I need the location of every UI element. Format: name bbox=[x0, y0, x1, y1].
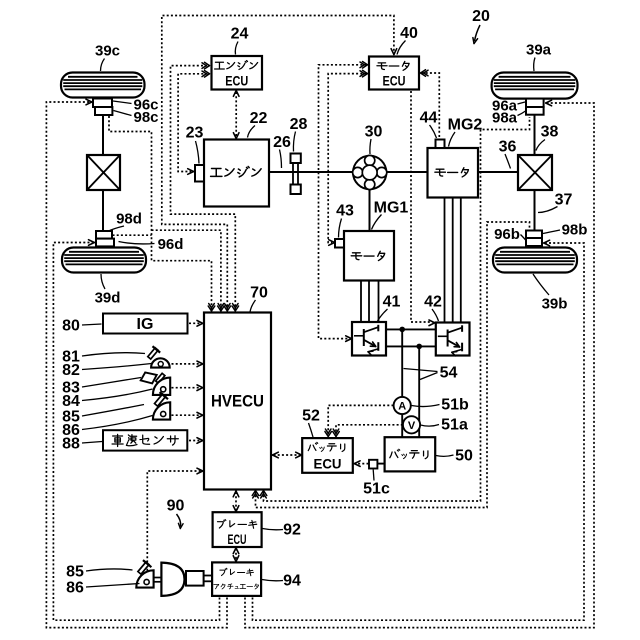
wire: brake ECU to brake actuator bbox=[235, 549, 237, 561]
svg-text:52: 52 bbox=[302, 408, 320, 425]
wheel speed sensor 98a bbox=[526, 107, 544, 115]
label 39d bbox=[95, 274, 121, 306]
label 81 bbox=[62, 349, 145, 366]
shaft right bottom bbox=[534, 189, 536, 232]
wire: HVECU to brake ECU bbox=[235, 492, 237, 511]
label 86 bbox=[62, 416, 152, 440]
svg-text:80: 80 bbox=[62, 318, 80, 335]
svg-text:44: 44 bbox=[420, 110, 438, 127]
rotation sensor 44 bbox=[436, 140, 445, 149]
svg-text:28: 28 bbox=[290, 116, 308, 133]
wire: brake line to wheel brake 96c bbox=[46, 102, 227, 628]
label 98d bbox=[108, 210, 142, 231]
svg-text:90: 90 bbox=[167, 498, 185, 515]
shaft right top bbox=[534, 114, 536, 156]
label 85 bbox=[62, 405, 144, 426]
label 90 bbox=[167, 498, 185, 515]
svg-text:42: 42 bbox=[424, 294, 442, 311]
wheel brake 96d bbox=[96, 239, 114, 247]
accel pedal sensor 81 82 bbox=[145, 346, 169, 368]
label 80 bbox=[62, 318, 101, 335]
wheel brake 96c bbox=[93, 99, 112, 108]
label 40 bbox=[397, 25, 418, 54]
svg-text:96b: 96b bbox=[494, 226, 520, 243]
wire: brake line to wheel brake 96d bbox=[53, 243, 219, 621]
inverter 42 bbox=[436, 323, 470, 356]
wire: brake line to wheel brake 96a bbox=[245, 103, 594, 628]
label 92 bbox=[263, 522, 302, 539]
wire: HVECU to battery ECU bbox=[274, 454, 301, 456]
svg-text:22: 22 bbox=[250, 110, 268, 127]
motor MG1 bbox=[344, 231, 394, 281]
throttle sensor 23 bbox=[195, 165, 204, 182]
label 51b bbox=[412, 397, 470, 414]
svg-text:36: 36 bbox=[499, 139, 517, 156]
wheel 39c bbox=[61, 73, 145, 98]
svg-text:23: 23 bbox=[186, 125, 204, 142]
wire: voltmeter 51a to battery ECU bbox=[336, 425, 403, 435]
label 28 bbox=[290, 116, 308, 151]
svg-text:86: 86 bbox=[66, 580, 84, 597]
shaft left bottom bbox=[102, 189, 104, 232]
label 38 bbox=[536, 124, 559, 151]
svg-text:50: 50 bbox=[455, 448, 473, 465]
svg-text:51a: 51a bbox=[441, 417, 468, 434]
planetary gear 30 bbox=[353, 156, 386, 189]
svg-text:40: 40 bbox=[400, 25, 418, 42]
label 44 bbox=[420, 110, 438, 138]
engine ECU 24 bbox=[212, 56, 263, 90]
shaft ring gear to MG2 bbox=[386, 171, 428, 173]
wire: IG switch to HVECU bbox=[189, 322, 201, 324]
damper 28 bbox=[292, 160, 294, 186]
label 42 bbox=[424, 294, 442, 321]
svg-text:ECU: ECU bbox=[314, 456, 342, 472]
label 98b bbox=[543, 221, 587, 238]
wheel speed sensor 98c bbox=[95, 107, 112, 115]
label 39c bbox=[95, 42, 120, 71]
wheel 39b bbox=[493, 248, 577, 273]
svg-text:98b: 98b bbox=[562, 221, 588, 238]
svg-text:98a: 98a bbox=[492, 109, 518, 126]
battery to 51c wire bbox=[377, 463, 386, 465]
svg-text:ECU: ECU bbox=[228, 531, 247, 547]
label 82 bbox=[62, 362, 151, 379]
label 36 bbox=[499, 139, 517, 169]
label 86 lower bbox=[66, 580, 139, 597]
shaft ring to MG1 bbox=[369, 190, 371, 232]
wire: wheel speed sensor 98d branch bbox=[113, 234, 152, 236]
wire: motor ECU to inverter 41 bbox=[319, 65, 367, 339]
wire: ammeter 51b to battery ECU bbox=[328, 405, 393, 434]
wire: motor ECU to sensor 43 bbox=[328, 74, 366, 243]
shaft MG2 to right diff 36 bbox=[478, 171, 518, 173]
svg-text:ECU: ECU bbox=[383, 73, 406, 89]
master cylinder block bbox=[186, 571, 204, 586]
label 54 bbox=[440, 365, 458, 382]
wire: accel sensor to HVECU bbox=[172, 363, 201, 365]
label 51a bbox=[421, 417, 468, 434]
DC bus wires 54 bbox=[386, 328, 437, 330]
motor MG2 bbox=[428, 148, 479, 198]
wire: HVECU to wheel speed sensor 98a bbox=[264, 117, 530, 501]
svg-text:24: 24 bbox=[231, 26, 249, 43]
motor ECU 40 bbox=[369, 57, 419, 90]
label 26 bbox=[273, 134, 291, 168]
svg-text:39d: 39d bbox=[95, 289, 121, 306]
shaft left top bbox=[102, 114, 104, 156]
svg-text:85: 85 bbox=[66, 564, 84, 581]
label 70 bbox=[250, 285, 268, 312]
svg-text:92: 92 bbox=[283, 522, 301, 539]
three phase wires MG1 to inverter 41 bbox=[360, 280, 362, 323]
brake ECU 92 bbox=[213, 512, 262, 547]
svg-text:98d: 98d bbox=[116, 210, 142, 227]
label 51c bbox=[363, 470, 390, 498]
svg-text:51c: 51c bbox=[363, 481, 390, 498]
battery current sensor 51c bbox=[369, 460, 377, 469]
label 85 lower bbox=[66, 564, 132, 581]
wheel brake 96a bbox=[526, 99, 544, 107]
svg-text:51b: 51b bbox=[441, 397, 469, 414]
label 22 bbox=[248, 110, 268, 137]
label 96a bbox=[492, 97, 525, 114]
svg-text:ECU: ECU bbox=[225, 73, 248, 89]
wheel 39a bbox=[492, 73, 578, 99]
label 37 bbox=[538, 192, 573, 213]
wire: brake sensor to HVECU bbox=[172, 387, 201, 389]
wire: HVECU to motor ECU via top bus bbox=[162, 16, 394, 311]
svg-text:39c: 39c bbox=[95, 42, 120, 59]
svg-text:V: V bbox=[408, 420, 416, 432]
label 41 bbox=[378, 294, 401, 321]
svg-text:30: 30 bbox=[365, 124, 383, 141]
label 96c bbox=[113, 96, 159, 113]
brake pedal sensor 83 84 bbox=[141, 372, 171, 395]
svg-text:98c: 98c bbox=[133, 109, 158, 126]
svg-text:20: 20 bbox=[472, 8, 490, 25]
label 52 bbox=[302, 408, 320, 437]
label 20 bbox=[472, 8, 490, 25]
wheel brake 96b bbox=[526, 238, 542, 246]
label 96b bbox=[494, 226, 526, 243]
booster push rod bbox=[185, 575, 187, 577]
rotation sensor 43 bbox=[335, 239, 344, 248]
differential left bbox=[87, 155, 120, 190]
label 98c bbox=[114, 109, 159, 126]
svg-text:54: 54 bbox=[440, 365, 458, 382]
differential right 38 bbox=[518, 155, 552, 190]
wire: sensor 51c to battery ECU bbox=[356, 463, 369, 465]
wire: engine ECU to sensor 23 bbox=[178, 74, 207, 172]
svg-text:HVECU: HVECU bbox=[211, 392, 264, 411]
wire: motor ECU to sensor 44 bbox=[422, 73, 440, 138]
svg-text:MG2: MG2 bbox=[448, 117, 483, 134]
label 94 bbox=[262, 573, 301, 590]
svg-text:39a: 39a bbox=[526, 41, 552, 58]
wire: HVECU to wheel speed sensor 98b bbox=[256, 222, 530, 508]
inverter 41 bbox=[352, 322, 386, 356]
brake actuator 94 bbox=[212, 562, 261, 596]
label 39a bbox=[526, 41, 552, 71]
svg-text:41: 41 bbox=[383, 294, 401, 311]
label MG1 bbox=[372, 200, 409, 230]
wire: sensor branch to HVECU bbox=[152, 230, 221, 310]
svg-text:A: A bbox=[398, 401, 406, 413]
svg-text:38: 38 bbox=[541, 124, 559, 141]
wire: speed sensor to HVECU bbox=[189, 440, 201, 442]
pedal link bbox=[154, 577, 162, 579]
shift sensor 85 86 bbox=[152, 392, 170, 420]
wire: shift sensor to HVECU bbox=[172, 414, 201, 416]
label 39b bbox=[533, 274, 567, 312]
label 84 bbox=[62, 389, 152, 410]
brake pedal 85 86 lower bbox=[135, 560, 153, 588]
wheel 39d bbox=[62, 248, 146, 273]
label MG2 bbox=[448, 117, 483, 147]
svg-text:70: 70 bbox=[250, 285, 268, 302]
wire: wheel speed sensor 98c to HVECU bbox=[109, 116, 212, 311]
IG switch 80 bbox=[103, 314, 188, 334]
wheel speed sensor 98b bbox=[526, 231, 542, 239]
label 24 bbox=[231, 26, 249, 55]
svg-text:MG1: MG1 bbox=[374, 200, 409, 217]
battery 50 bbox=[385, 437, 436, 471]
wire: brake line to wheel brake 96b bbox=[253, 243, 585, 620]
junction dots bbox=[399, 327, 405, 333]
ammeter 51b bbox=[394, 397, 411, 414]
svg-text:82: 82 bbox=[62, 362, 80, 379]
label 23 bbox=[186, 125, 204, 164]
label 50 bbox=[436, 448, 473, 465]
svg-text:96d: 96d bbox=[158, 236, 184, 253]
label 88 bbox=[62, 436, 102, 453]
label 96d bbox=[119, 236, 184, 253]
label 83 bbox=[62, 378, 141, 397]
brake booster dome bbox=[161, 563, 184, 596]
wheel speed sensor 98d bbox=[96, 231, 112, 239]
battery ECU 52 bbox=[302, 438, 353, 473]
wire: motor ECU to inverter 42 bbox=[411, 91, 433, 322]
svg-text:IG: IG bbox=[137, 316, 154, 333]
svg-text:84: 84 bbox=[62, 393, 80, 410]
three phase wires MG2 to inverter 42 bbox=[444, 197, 446, 324]
svg-text:94: 94 bbox=[283, 573, 301, 590]
wire: engine ECU to engine bbox=[235, 92, 237, 137]
label 98a bbox=[492, 109, 526, 126]
label 30 bbox=[365, 124, 383, 154]
wire: brake pedal sensor to HVECU bbox=[147, 471, 200, 575]
svg-text:43: 43 bbox=[336, 203, 354, 220]
svg-text:88: 88 bbox=[62, 436, 80, 453]
label 43 bbox=[336, 203, 354, 238]
svg-text:26: 26 bbox=[273, 134, 291, 151]
voltmeter 51a bbox=[403, 416, 420, 433]
engine 22 bbox=[204, 140, 269, 207]
svg-text:39b: 39b bbox=[542, 295, 568, 312]
wire: HVECU to engine ECU bbox=[171, 66, 236, 311]
HVECU 70 bbox=[204, 313, 271, 490]
engine output shaft 26 bbox=[269, 171, 354, 173]
vehicle speed sensor 88 bbox=[103, 430, 187, 450]
